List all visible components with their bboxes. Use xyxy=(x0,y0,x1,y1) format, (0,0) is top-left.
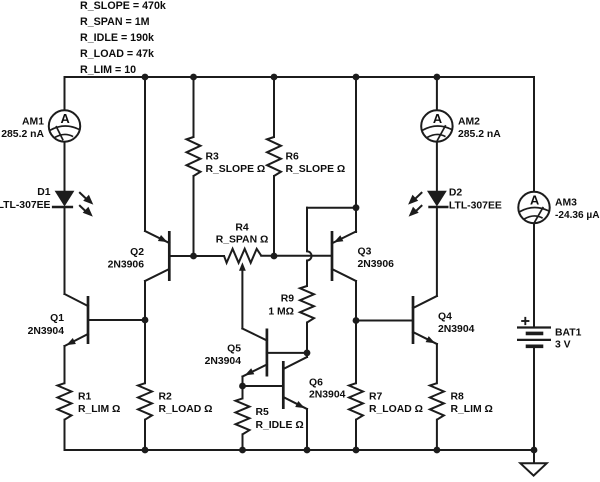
svg-text:LTL-307EE: LTL-307EE xyxy=(0,200,51,211)
svg-text:2N3904: 2N3904 xyxy=(28,326,65,337)
svg-text:R8: R8 xyxy=(451,392,465,403)
wire R5 top lead xyxy=(242,386,244,398)
svg-text:R1: R1 xyxy=(78,392,92,403)
transistor Q2 collector xyxy=(145,269,169,281)
svg-text:R_SLOPE Ω: R_SLOPE Ω xyxy=(286,164,346,175)
svg-text:2N3904: 2N3904 xyxy=(309,390,346,401)
transistor Q2 base wire xyxy=(169,255,224,257)
wire hop over base wire xyxy=(307,251,312,260)
transistor Q6 base wire xyxy=(243,385,284,387)
node R8 bottom rail xyxy=(434,447,441,454)
svg-text:R4: R4 xyxy=(235,223,249,234)
wire top supply rail xyxy=(65,76,535,78)
wire top rail to AM3 xyxy=(533,77,535,192)
transistor Q6 base bar xyxy=(282,361,285,409)
wire R7 to bottom rail xyxy=(355,420,357,450)
svg-text:R_SLOPE = 470k: R_SLOPE = 470k xyxy=(80,0,166,12)
svg-text:R5: R5 xyxy=(256,407,270,418)
svg-text:Q5: Q5 xyxy=(227,344,241,355)
svg-text:R_LIM = 10: R_LIM = 10 xyxy=(80,64,136,76)
svg-text:Q6: Q6 xyxy=(309,378,323,389)
LED D1 xyxy=(56,191,74,205)
battery BAT1 plus sign xyxy=(521,320,529,322)
wire Q1 emitter to R1 xyxy=(64,346,66,383)
transistor Q2 emitter xyxy=(145,231,169,243)
transistor Q2 base bar xyxy=(168,231,171,281)
wire R1 to bottom rail xyxy=(64,420,66,450)
transistor Q1 base bar xyxy=(87,296,90,344)
resistor R5 xyxy=(236,398,250,434)
svg-text:R_SLOPE Ω: R_SLOPE Ω xyxy=(206,164,266,175)
svg-text:2N3906: 2N3906 xyxy=(108,260,145,271)
wire top rail to Q3 emitter node xyxy=(355,77,357,208)
wire R6 to base wire xyxy=(273,176,275,256)
transistor Q1 collector xyxy=(65,294,89,306)
resistor R9 xyxy=(300,286,314,323)
svg-text:R_LIM Ω: R_LIM Ω xyxy=(78,404,120,415)
wire BAT1 to bottom rail xyxy=(533,346,535,450)
transistor Q6 emitter xyxy=(283,397,307,409)
svg-text:R6: R6 xyxy=(286,152,300,163)
transistor Q5 collector xyxy=(242,329,267,341)
node R2 bottom rail xyxy=(142,447,149,454)
potentiometer R4 wiper xyxy=(239,262,246,271)
svg-text:A: A xyxy=(530,192,539,207)
wire hop to R9 xyxy=(306,261,308,287)
wire D2 to Q4 collector xyxy=(436,207,438,296)
svg-text:R9: R9 xyxy=(281,294,295,305)
transistor Q4 collector xyxy=(413,296,437,308)
transistor Q4 emitter xyxy=(413,332,437,344)
node junction top rail R3 xyxy=(190,74,197,81)
svg-text:R_LOAD = 47k: R_LOAD = 47k xyxy=(80,48,154,60)
ground xyxy=(520,463,546,475)
svg-text:R2: R2 xyxy=(159,392,173,403)
svg-text:R_SPAN Ω: R_SPAN Ω xyxy=(216,235,269,246)
wire Q5 emitter down xyxy=(242,377,244,387)
wire R9 to Q5 base node xyxy=(306,323,308,353)
node junction top rail x356 xyxy=(353,74,360,81)
node Q3 emitter node xyxy=(353,204,360,211)
svg-text:-24.36 µA: -24.36 µA xyxy=(555,210,600,221)
resistor R8 xyxy=(430,383,444,420)
resistor R6 xyxy=(267,137,281,176)
node bottom rail ground xyxy=(531,447,538,454)
wire node to R2 xyxy=(144,320,146,383)
svg-text:R7: R7 xyxy=(369,392,383,403)
node R5 bottom rail xyxy=(239,447,246,454)
transistor Q5 base wire xyxy=(267,352,307,354)
wire R5 bottom lead xyxy=(242,434,244,450)
potentiometer R4 xyxy=(224,249,261,263)
node Q5 base / Q6 collector / R9 xyxy=(304,350,311,357)
wire Q6 emitter down xyxy=(306,409,308,450)
wire Q3 emitter node horizontal xyxy=(307,207,356,209)
transistor Q3 collector xyxy=(332,269,356,281)
ammeter AM3 xyxy=(518,192,549,223)
svg-text:AM1: AM1 xyxy=(22,117,44,128)
wire to ground xyxy=(533,450,535,463)
LED D2 xyxy=(428,191,446,205)
transistor Q1 emitter xyxy=(65,334,89,346)
node R6 bottom xyxy=(271,253,278,260)
resistor R3 xyxy=(187,137,201,176)
wire R2 to bottom rail xyxy=(144,420,146,450)
svg-text:Q3: Q3 xyxy=(358,247,372,258)
transistor Q6 collector xyxy=(283,357,307,369)
node Q6 emitter bottom rail xyxy=(304,447,311,454)
transistor Q5 emitter xyxy=(243,365,267,377)
wire Q3 collector down xyxy=(355,281,357,321)
wire AM1 branch top xyxy=(64,77,66,110)
transistor Q3 base bar xyxy=(331,231,334,281)
svg-text:R_SPAN = 1M: R_SPAN = 1M xyxy=(80,16,150,28)
svg-text:BAT1: BAT1 xyxy=(555,328,582,339)
wire AM3 to BAT1 xyxy=(533,223,535,327)
svg-text:285.2 nA: 285.2 nA xyxy=(458,129,501,140)
node junction top rail x145 xyxy=(142,74,149,81)
svg-text:3 V: 3 V xyxy=(555,340,571,351)
transistor Q5 base bar xyxy=(266,329,269,377)
svg-text:R_LIM Ω: R_LIM Ω xyxy=(451,404,493,415)
wire node to R7 xyxy=(355,321,357,384)
svg-text:AM2: AM2 xyxy=(458,117,480,128)
LED D2 light arrows xyxy=(414,192,422,200)
svg-text:R_LOAD Ω: R_LOAD Ω xyxy=(159,404,213,415)
node Q4 base / Q3 collector / R7 xyxy=(353,317,360,324)
wire AM2 to D2 xyxy=(436,142,438,191)
node Q6 base / Q5 emitter / R5 xyxy=(239,383,246,390)
transistor Q4 base bar xyxy=(412,296,415,344)
wire top rail to R6 xyxy=(273,77,275,137)
svg-text:Q2: Q2 xyxy=(130,247,144,258)
wire D1 to Q1 collector xyxy=(64,207,66,294)
resistor R1 xyxy=(58,383,72,420)
ammeter AM2 xyxy=(421,110,452,141)
transistor Q3 emitter xyxy=(355,208,357,232)
svg-text:LTL-307EE: LTL-307EE xyxy=(449,201,502,212)
wire Q4 emitter to R8 xyxy=(436,344,438,383)
wire Q2 collector to node xyxy=(144,281,146,320)
wire top rail to AM2 xyxy=(436,77,438,110)
LED D1 light arrows xyxy=(79,192,87,200)
node junction top rail AM2 xyxy=(434,74,441,81)
battery BAT1 xyxy=(517,326,551,328)
svg-text:R_LOAD Ω: R_LOAD Ω xyxy=(369,404,423,415)
svg-text:AM3: AM3 xyxy=(555,198,577,209)
node Q1 base / Q2 collector / R2 xyxy=(142,317,149,324)
svg-text:R3: R3 xyxy=(206,152,220,163)
wire top rail to R3 xyxy=(193,77,195,137)
node R3 bottom xyxy=(190,253,197,260)
svg-text:D2: D2 xyxy=(449,188,463,199)
resistor R7 xyxy=(349,383,363,420)
svg-text:R_IDLE = 190k: R_IDLE = 190k xyxy=(80,32,154,44)
resistor R2 xyxy=(138,383,152,420)
node junction top rail R6 xyxy=(271,74,278,81)
node R7 bottom rail xyxy=(353,447,360,454)
svg-text:R_IDLE Ω: R_IDLE Ω xyxy=(256,420,304,431)
svg-text:D1: D1 xyxy=(37,187,51,198)
svg-text:2N3904: 2N3904 xyxy=(205,356,242,367)
wire bottom rail xyxy=(65,449,535,451)
ammeter AM1 xyxy=(49,110,80,141)
wire Q2 emitter branch xyxy=(144,77,146,231)
wire vertical to hop xyxy=(306,208,308,252)
svg-text:2N3904: 2N3904 xyxy=(438,324,475,335)
wire AM1 to D1 xyxy=(64,142,66,191)
svg-text:Q4: Q4 xyxy=(438,312,452,323)
svg-text:285.2 nA: 285.2 nA xyxy=(1,129,44,140)
transistor Q1 base wire xyxy=(88,319,145,321)
wire R3 to base wire xyxy=(193,176,195,256)
wire R4 right to Q3 base xyxy=(261,255,332,257)
wire R8 to bottom rail xyxy=(436,420,438,450)
transistor Q4 base wire xyxy=(356,320,413,322)
svg-text:2N3906: 2N3906 xyxy=(358,259,395,270)
svg-text:Q1: Q1 xyxy=(50,313,64,324)
svg-text:A: A xyxy=(433,111,442,126)
svg-text:A: A xyxy=(60,111,69,126)
svg-text:1 MΩ: 1 MΩ xyxy=(268,307,294,318)
